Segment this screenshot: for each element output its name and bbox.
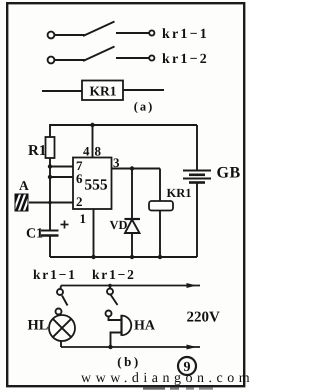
svg-text:6: 6 xyxy=(76,171,83,186)
node: junction to pin 6 xyxy=(48,175,52,179)
svg-text:A: A xyxy=(19,178,29,193)
wire to pin 6 xyxy=(50,176,73,178)
diode VD xyxy=(131,169,133,220)
mains line L with arrow xyxy=(61,285,200,287)
node: junction with pin-2 wire xyxy=(48,201,52,205)
top supply rail xyxy=(50,125,197,137)
svg-text:2: 2 xyxy=(76,194,83,209)
switch contact kr1-1 (section a) xyxy=(48,22,155,39)
svg-text:KR1: KR1 xyxy=(167,186,192,200)
border frame xyxy=(7,3,244,386)
lamp HL xyxy=(49,315,75,341)
svg-text:HA: HA xyxy=(134,319,156,334)
svg-text:GB: GB xyxy=(217,165,241,182)
wire: R1 bottom down to C1 xyxy=(49,158,51,231)
wire to pin 7 xyxy=(50,166,73,168)
switch contact kr1-2 (section a) xyxy=(48,47,155,64)
node pin3/VD xyxy=(130,166,134,170)
svg-text:4: 4 xyxy=(83,144,90,159)
svg-text:kr1−1: kr1−1 xyxy=(33,267,77,282)
svg-text:kr1−2: kr1−2 xyxy=(162,52,209,67)
wire pins 4/8 to rail xyxy=(92,125,94,158)
svg-text:HL: HL xyxy=(28,318,49,334)
svg-text:kr1−1: kr1−1 xyxy=(162,27,209,42)
relay coil KR1 (section middle) xyxy=(159,169,161,202)
resistor R1 xyxy=(46,137,55,158)
node rail/kr1-2 xyxy=(108,284,112,288)
battery GB xyxy=(196,125,198,171)
switch kr1-2 (section b) xyxy=(109,286,111,289)
op-amp/timer U1 555 box xyxy=(73,158,112,210)
wire C1 to ground rail xyxy=(49,236,51,258)
svg-text:www.diangon.com: www.diangon.com xyxy=(81,371,250,386)
wire A to pin 2 xyxy=(29,202,73,204)
cut-off text at bottom edge xyxy=(143,388,165,390)
svg-text:220V: 220V xyxy=(187,310,221,326)
wire pin 3 to relay branch xyxy=(112,168,161,170)
svg-text:kr1−2: kr1−2 xyxy=(92,267,136,282)
svg-text:8: 8 xyxy=(95,144,102,159)
svg-text:KR1: KR1 xyxy=(90,84,117,99)
node: junction to pin 7 xyxy=(48,164,52,168)
wire lamp to neutral rail xyxy=(60,341,62,347)
svg-text:1: 1 xyxy=(80,211,87,226)
svg-text:(a): (a) xyxy=(134,100,155,114)
electrode A (hatched plate) xyxy=(14,193,36,212)
node HA/rail xyxy=(108,345,112,349)
C1 plus sign xyxy=(61,221,69,229)
relay coil KR1 (section a) xyxy=(42,90,82,92)
node pin1/rail xyxy=(91,255,95,259)
wire pin 1 down xyxy=(93,209,95,257)
mains line N with arrow xyxy=(61,346,200,348)
switch kr1-1 (section b) xyxy=(59,286,62,290)
svg-text:R1: R1 xyxy=(28,143,46,159)
ground rail (bottom of oscillator section) xyxy=(50,256,197,258)
sounder HA xyxy=(120,315,122,336)
node: rail to pins 4/8 xyxy=(90,123,94,127)
svg-text:C1: C1 xyxy=(26,227,43,242)
svg-text:(b): (b) xyxy=(117,354,140,369)
node KR1/rail xyxy=(158,255,162,259)
wire HA to neutral rail xyxy=(111,333,122,348)
node VD/rail xyxy=(130,255,134,259)
figure number 9 (circled) xyxy=(178,357,196,375)
svg-text:555: 555 xyxy=(84,177,108,194)
wire switch to HA xyxy=(109,317,122,321)
svg-text:VD: VD xyxy=(110,218,128,232)
